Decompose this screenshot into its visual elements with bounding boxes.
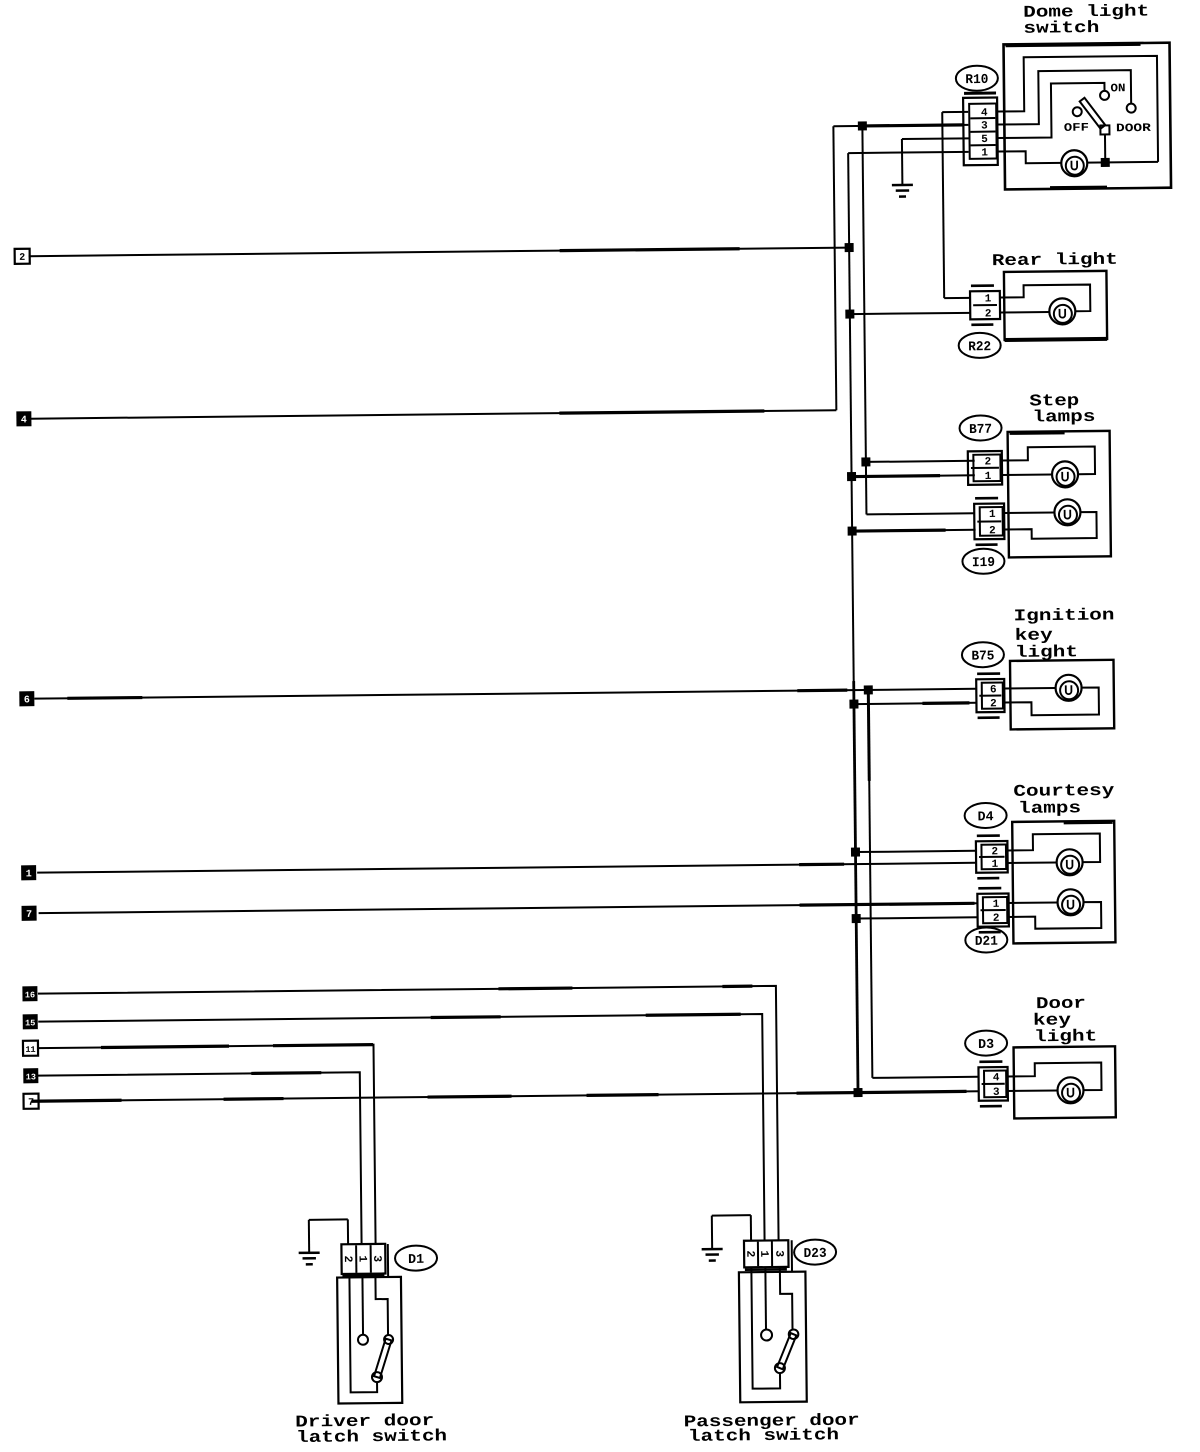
svg-text:15: 15 bbox=[25, 1018, 35, 1028]
svg-text:lamps: lamps bbox=[1018, 798, 1081, 818]
svg-text:DOOR: DOOR bbox=[1116, 122, 1151, 135]
svg-text:latch switch: latch switch bbox=[688, 1425, 839, 1446]
svg-text:2: 2 bbox=[989, 525, 996, 537]
svg-text:latch switch: latch switch bbox=[296, 1426, 447, 1447]
svg-text:light: light bbox=[1034, 1027, 1097, 1047]
svg-text:1: 1 bbox=[985, 293, 992, 305]
svg-text:3: 3 bbox=[370, 1255, 383, 1262]
svg-text:1: 1 bbox=[981, 147, 988, 159]
svg-text:OFF: OFF bbox=[1064, 122, 1089, 135]
svg-text:D1: D1 bbox=[408, 1253, 424, 1268]
svg-text:1: 1 bbox=[26, 869, 32, 880]
svg-text:B77: B77 bbox=[969, 423, 992, 438]
svg-text:B75: B75 bbox=[971, 649, 994, 664]
svg-text:2: 2 bbox=[19, 253, 25, 264]
svg-text:7: 7 bbox=[26, 910, 32, 921]
svg-text:1: 1 bbox=[992, 859, 999, 871]
svg-text:R10: R10 bbox=[965, 73, 988, 88]
svg-text:light: light bbox=[1015, 642, 1078, 662]
svg-text:2: 2 bbox=[743, 1250, 756, 1257]
svg-text:D3: D3 bbox=[978, 1038, 994, 1053]
svg-text:6: 6 bbox=[990, 684, 997, 696]
svg-text:D4: D4 bbox=[978, 810, 994, 825]
svg-text:2: 2 bbox=[985, 308, 992, 320]
svg-text:Rear light: Rear light bbox=[992, 250, 1118, 270]
svg-text:D23: D23 bbox=[804, 1247, 827, 1262]
svg-text:2: 2 bbox=[985, 456, 992, 468]
svg-text:6: 6 bbox=[24, 695, 30, 706]
svg-text:I19: I19 bbox=[972, 556, 995, 571]
svg-text:1: 1 bbox=[985, 471, 992, 483]
svg-text:16: 16 bbox=[25, 990, 35, 1000]
svg-text:5: 5 bbox=[981, 134, 988, 146]
svg-text:R22: R22 bbox=[968, 340, 991, 355]
svg-text:Ignition: Ignition bbox=[1013, 605, 1114, 625]
svg-text:1: 1 bbox=[989, 509, 996, 521]
svg-text:3: 3 bbox=[993, 1087, 1000, 1099]
svg-text:7: 7 bbox=[28, 1098, 34, 1109]
svg-text:2: 2 bbox=[990, 698, 997, 710]
svg-text:D21: D21 bbox=[975, 935, 998, 950]
svg-text:4: 4 bbox=[981, 107, 988, 119]
svg-text:switch: switch bbox=[1023, 18, 1099, 38]
svg-text:1: 1 bbox=[993, 899, 1000, 911]
svg-text:4: 4 bbox=[993, 1072, 1000, 1084]
svg-text:2: 2 bbox=[341, 1255, 354, 1262]
svg-text:11: 11 bbox=[25, 1045, 35, 1055]
svg-text:1: 1 bbox=[356, 1255, 369, 1262]
svg-text:2: 2 bbox=[993, 913, 1000, 925]
svg-text:3: 3 bbox=[981, 120, 988, 132]
svg-text:ON: ON bbox=[1110, 82, 1125, 95]
svg-text:1: 1 bbox=[757, 1250, 770, 1257]
svg-text:2: 2 bbox=[991, 846, 998, 858]
svg-text:3: 3 bbox=[772, 1250, 785, 1257]
svg-text:13: 13 bbox=[26, 1072, 36, 1082]
svg-text:lamps: lamps bbox=[1032, 407, 1095, 427]
svg-text:4: 4 bbox=[21, 415, 27, 426]
